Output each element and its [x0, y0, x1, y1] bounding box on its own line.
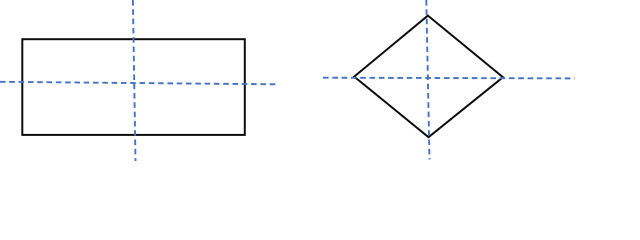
- horizontal dashed symmetry line (rectangle): [0, 82, 275, 85]
- vertical dashed symmetry line (rectangle): [133, 0, 136, 161]
- vertical dashed symmetry line (diamond): [426, 0, 429, 160]
- rectangle shape: [22, 39, 245, 135]
- diamond shape: [354, 16, 503, 138]
- horizontal dashed symmetry line (diamond): [323, 77, 575, 80]
